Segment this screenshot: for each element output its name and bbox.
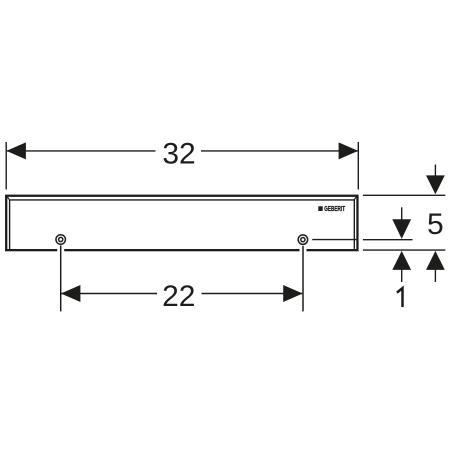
dimension line 22: [61, 293, 302, 295]
arrowhead right of dim 32: [339, 142, 359, 159]
panel bevel top-right diagonal: [354, 196, 357, 200]
extension line left of dim 32: [5, 142, 7, 190]
panel top reference line extension right: [363, 194, 445, 196]
white casing where extension lines cross panel bottom edge: [61, 247, 303, 254]
arrowhead right of dim 22: [283, 285, 303, 302]
dimension text 1: [397, 288, 403, 307]
dim 1 bottom arrow (up): [392, 251, 411, 282]
panel bevel top-left diagonal: [7, 196, 10, 200]
dimension text 22: [162, 280, 195, 313]
extension line right of dim 32: [357, 142, 359, 190]
hole centre reference line inside panel: [312, 239, 357, 241]
panel bottom reference line extension right: [363, 249, 445, 251]
svg-text:GEBERIT: GEBERIT: [324, 204, 345, 213]
svg-text:22: 22: [162, 280, 195, 313]
svg-text:5: 5: [427, 208, 444, 241]
dimension text 5: [427, 208, 444, 241]
extension line below left hole: [60, 245, 62, 311]
extension line below right hole: [302, 246, 304, 312]
arrowhead left of dim 32: [6, 142, 26, 159]
hole centre reference line extension right: [363, 239, 413, 241]
left fastening hole inner circle: [59, 237, 63, 241]
dimension text 32: [162, 137, 195, 170]
panel bevel right inner line: [353, 199, 355, 249]
panel outer rectangle: [6, 196, 357, 250]
dim 5 bottom arrow (up): [426, 251, 445, 282]
Geberit logo square: [318, 206, 322, 211]
svg-text:32: 32: [162, 137, 195, 170]
Geberit logo text: [324, 204, 345, 213]
dim 5 top arrow (down): [426, 165, 445, 195]
arrowhead left of dim 22: [61, 285, 81, 302]
panel bevel top inner line: [10, 199, 354, 201]
left fastening hole outer circle: [56, 235, 65, 245]
panel bevel left inner line: [9, 200, 11, 249]
right fastening hole inner circle: [301, 238, 305, 242]
right fastening hole outer circle: [298, 235, 308, 245]
dim 1 top arrow (down): [392, 207, 411, 239]
dimension line 32: [7, 150, 358, 152]
